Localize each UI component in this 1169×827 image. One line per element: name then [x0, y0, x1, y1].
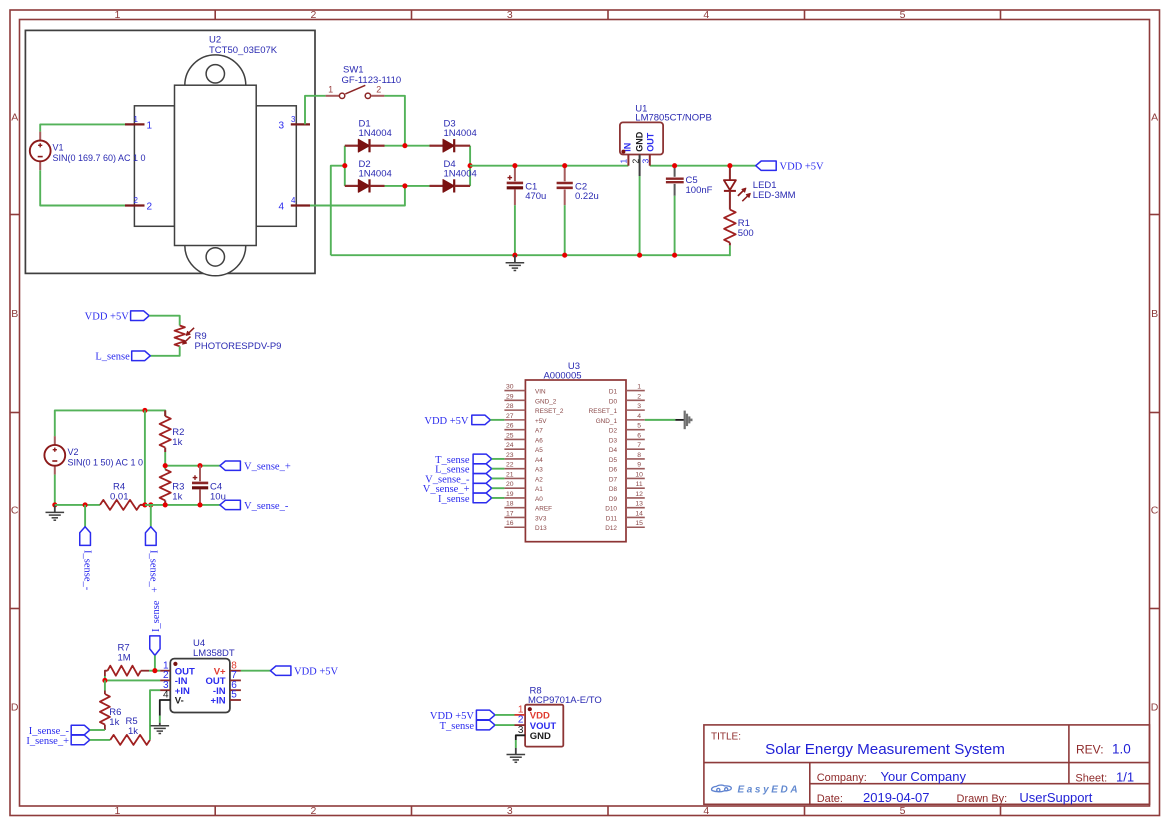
- svg-text:D5: D5: [609, 457, 618, 464]
- svg-text:29: 29: [506, 393, 514, 400]
- svg-text:3V3: 3V3: [535, 515, 547, 522]
- resistor R4 0.01: [100, 500, 145, 510]
- wire R8 pin 3 to ground: [516, 735, 525, 748]
- svg-text:VIN: VIN: [535, 389, 546, 396]
- MCU U3 A000005 body: [525, 380, 626, 542]
- svg-text:1N4004: 1N4004: [359, 168, 392, 179]
- net flag VDD +5V at R8: [476, 710, 495, 720]
- junction I_sense_minus tap: [83, 502, 88, 507]
- net flag V_sense_-: [220, 500, 241, 509]
- wire V_sense_- flag to U3: [492, 477, 505, 479]
- svg-text:T_sense: T_sense: [440, 721, 475, 732]
- svg-text:A3: A3: [535, 467, 543, 474]
- svg-text:21: 21: [506, 471, 514, 478]
- svg-text:4: 4: [163, 690, 169, 701]
- svg-text:20: 20: [506, 481, 514, 488]
- svg-text:1k: 1k: [109, 717, 119, 728]
- svg-text:L_sense: L_sense: [95, 352, 130, 363]
- svg-text:Solar Energy Measurement Syste: Solar Energy Measurement System: [765, 741, 1005, 758]
- svg-text:5: 5: [900, 805, 906, 817]
- svg-text:11: 11: [636, 481, 643, 488]
- svg-text:13: 13: [635, 501, 643, 508]
- wire bridge top rail mid: [384, 145, 431, 147]
- svg-text:1: 1: [114, 805, 120, 817]
- net flag I_sense_+ vertical: [145, 527, 156, 546]
- resistor R3 1k: [160, 469, 171, 505]
- svg-text:Sheet:: Sheet:: [1075, 772, 1107, 784]
- wire R2 to V_sense_+ rail: [164, 452, 166, 469]
- resistor R1 500: [724, 210, 736, 246]
- svg-text:4: 4: [278, 201, 284, 212]
- title block title row divider: [704, 762, 1150, 764]
- U4 pin 2 -IN: [160, 670, 188, 687]
- svg-text:1: 1: [637, 384, 641, 391]
- wire I_sense_- flag to R6: [90, 729, 105, 731]
- junction C2 bottom: [562, 253, 567, 258]
- U1 pin 1 IN: [619, 143, 633, 166]
- svg-text:LED-3MM: LED-3MM: [753, 190, 796, 201]
- wire bridge output rail to U1 IN: [470, 165, 628, 167]
- svg-text:4: 4: [291, 196, 296, 205]
- junction bridge left mid: [342, 163, 347, 168]
- wire R9 to L_sense flag: [150, 346, 179, 356]
- svg-text:4: 4: [703, 805, 709, 817]
- net flag V_sense_+: [220, 461, 241, 470]
- svg-text:A1: A1: [535, 486, 543, 493]
- svg-text:2: 2: [376, 85, 381, 95]
- svg-text:SIN(0 169.7 60) AC 1 0: SIN(0 169.7 60) AC 1 0: [53, 153, 146, 163]
- wire R1 to ground rail: [729, 245, 731, 256]
- svg-text:V_sense_+: V_sense_+: [244, 462, 291, 473]
- regulator U1 LM7805 body: [620, 122, 663, 154]
- svg-text:V1: V1: [53, 143, 64, 153]
- wire U2 pin 4 to bridge bottom: [310, 186, 405, 206]
- U3 right pins 1-15: [589, 384, 645, 533]
- svg-text:REV:: REV:: [1076, 743, 1104, 757]
- title block rev column divider: [1068, 725, 1070, 784]
- svg-text:TCT50_03E07K: TCT50_03E07K: [209, 45, 278, 56]
- svg-text:470u: 470u: [525, 191, 546, 202]
- wire I_sense_+ tap down: [150, 505, 152, 527]
- wire VDD flag to R9: [149, 316, 180, 326]
- svg-text:V-: V-: [175, 696, 184, 707]
- wire bridge right vertical: [469, 146, 471, 186]
- U4 pin 5 +IN: [211, 690, 241, 707]
- resistor R7 1M: [105, 666, 149, 676]
- svg-text:SIN(0 1 50) AC 1 0: SIN(0 1 50) AC 1 0: [68, 457, 144, 467]
- wire I_sense flag to U3: [492, 497, 505, 499]
- signal ground at U3 GND_1: [675, 411, 691, 430]
- svg-text:15: 15: [635, 520, 643, 527]
- photoresistor R9: [175, 326, 195, 347]
- svg-text:GND: GND: [530, 731, 551, 742]
- svg-text:D9: D9: [609, 496, 618, 503]
- capacitor C1 470u polarized: [507, 166, 523, 206]
- title block lower row divider: [810, 783, 1150, 785]
- wire C1 to ground rail: [514, 205, 516, 255]
- junction bridge right mid: [468, 163, 473, 168]
- ground symbol at R8 pin 3: [507, 748, 526, 762]
- svg-text:I_sense_+: I_sense_+: [26, 736, 69, 747]
- svg-text:D13: D13: [535, 525, 547, 532]
- svg-text:A5: A5: [535, 447, 543, 454]
- junction U1 GND bottom: [637, 253, 642, 258]
- wire V_sense_+ flag to U3: [492, 487, 505, 489]
- svg-text:10u: 10u: [210, 491, 226, 502]
- svg-text:8: 8: [637, 452, 641, 459]
- svg-text:1N4004: 1N4004: [444, 168, 477, 179]
- svg-text:+5V: +5V: [535, 418, 547, 425]
- diode D3: [430, 139, 471, 152]
- svg-text:1: 1: [114, 9, 120, 21]
- wire bridge left to ground rail: [331, 166, 345, 256]
- svg-text:3: 3: [637, 403, 641, 410]
- svg-text:D: D: [1151, 702, 1159, 714]
- frame column ticks bottom: [215, 806, 1000, 816]
- svg-text:U2: U2: [209, 35, 221, 46]
- svg-text:+IN: +IN: [211, 696, 226, 707]
- LED LED1: [724, 166, 750, 210]
- svg-text:VDD +5V: VDD +5V: [424, 416, 469, 427]
- svg-text:A2: A2: [535, 476, 543, 483]
- svg-text:Company:: Company:: [817, 772, 867, 784]
- svg-text:VDD +5V: VDD +5V: [780, 162, 825, 173]
- svg-text:1: 1: [619, 159, 629, 164]
- wire SW1 pin 2 to bridge top: [384, 96, 405, 146]
- net flag VDD +5V at U4: [270, 666, 291, 675]
- wire U3 GND_1 to ground: [645, 419, 676, 421]
- svg-text:3: 3: [278, 120, 284, 131]
- svg-text:A7: A7: [535, 428, 543, 435]
- svg-text:AREF: AREF: [535, 506, 552, 513]
- svg-text:Date:: Date:: [817, 793, 843, 805]
- frame row letters left: [11, 112, 19, 714]
- wire U2 pin 3 to SW1: [305, 96, 326, 125]
- svg-text:A4: A4: [535, 457, 543, 464]
- svg-text:6: 6: [637, 432, 641, 439]
- net flag I_sense_- vertical: [80, 527, 91, 546]
- svg-text:D6: D6: [609, 467, 618, 474]
- svg-text:D12: D12: [605, 525, 617, 532]
- svg-text:24: 24: [506, 442, 514, 449]
- svg-text:D4: D4: [609, 447, 618, 454]
- R8 pin 1 marker dot: [528, 707, 532, 711]
- svg-text:OUT: OUT: [646, 132, 656, 152]
- capacitor C2 0.22u: [557, 166, 573, 206]
- wire V2 top rail: [55, 410, 165, 436]
- junction C5 top: [672, 163, 677, 168]
- junction top rail R2 branch: [142, 408, 147, 413]
- svg-text:Your Company: Your Company: [881, 769, 967, 784]
- net flag V_sense_- at U3: [473, 474, 492, 484]
- wire I_sense_- tap down: [84, 505, 86, 527]
- svg-text:D3: D3: [609, 437, 618, 444]
- svg-text:7: 7: [637, 442, 641, 449]
- switch SW1: [326, 85, 385, 99]
- svg-text:30: 30: [506, 384, 514, 391]
- junction C2 top: [562, 163, 567, 168]
- svg-text:19: 19: [506, 491, 514, 498]
- svg-text:A: A: [1151, 112, 1158, 124]
- svg-text:16: 16: [506, 520, 514, 527]
- frame column numbers top: [114, 9, 905, 21]
- svg-text:D2: D2: [609, 428, 618, 435]
- svg-text:V2: V2: [68, 447, 79, 457]
- U1 pin 1 marker dot: [621, 150, 625, 154]
- R8 pin 1 VDD: [515, 704, 550, 721]
- svg-text:3: 3: [291, 115, 296, 124]
- wire U1 GND to ground rail: [639, 176, 641, 255]
- junction -IN node: [102, 678, 107, 683]
- svg-text:GND_1: GND_1: [596, 418, 618, 425]
- junction bridge top mid: [402, 143, 407, 148]
- wire V1 bottom to U2 pin 2: [40, 170, 125, 205]
- svg-text:RESET_1: RESET_1: [589, 408, 618, 415]
- svg-text:27: 27: [506, 413, 514, 420]
- wire R5 to U4 pin 3: [150, 690, 160, 740]
- net flag I_sense above U4: [150, 636, 160, 656]
- svg-text:VDD +5V: VDD +5V: [294, 667, 339, 678]
- net flag VDD +5V at regulator output: [756, 161, 777, 170]
- svg-text:LM7805CT/NOPB: LM7805CT/NOPB: [635, 112, 712, 123]
- ground symbol under C1: [506, 255, 525, 270]
- wire C2 to ground rail: [564, 205, 566, 255]
- wire ground rail: [331, 254, 730, 256]
- junction C4 bottom: [197, 502, 202, 507]
- R8 pin 3 GND: [518, 725, 551, 742]
- svg-text:3: 3: [518, 725, 524, 736]
- frame column ticks top: [215, 10, 1000, 20]
- svg-text:TITLE:: TITLE:: [711, 732, 741, 743]
- svg-text:1: 1: [147, 120, 153, 131]
- svg-text:RESET_2: RESET_2: [535, 408, 564, 415]
- svg-text:GF-1123-1110: GF-1123-1110: [342, 75, 402, 86]
- U1 pin 2 GND: [631, 131, 645, 176]
- svg-text:1k: 1k: [172, 491, 182, 502]
- svg-text:1N4004: 1N4004: [444, 128, 477, 139]
- svg-text:SW1: SW1: [343, 64, 364, 75]
- transformer U2 core body: [134, 55, 296, 276]
- net flag T_sense at U3: [473, 454, 492, 464]
- svg-text:D1: D1: [609, 389, 618, 396]
- svg-text:100nF: 100nF: [686, 185, 713, 196]
- svg-text:3: 3: [507, 805, 513, 817]
- frame column numbers bottom: [114, 805, 905, 817]
- title block logo cell divider: [809, 763, 811, 805]
- U3 left pins 30-16: [504, 384, 563, 533]
- svg-text:B: B: [11, 308, 18, 320]
- wire V2 bottom to ground: [54, 475, 56, 505]
- junction bridge bottom mid: [402, 183, 407, 188]
- junction V2 ground: [52, 502, 57, 507]
- sensor R8 MCP9701 body: [525, 705, 563, 747]
- wire I_sense flag to U4 pin 1: [154, 655, 156, 670]
- svg-text:LM358DT: LM358DT: [193, 648, 235, 659]
- frame row ticks right: [1150, 215, 1160, 609]
- capacitor C4 10u polarized: [192, 466, 208, 505]
- wire U1 OUT rail to VDD flag: [650, 165, 756, 167]
- svg-text:26: 26: [506, 423, 514, 430]
- net flag T_sense at R8: [476, 720, 495, 730]
- svg-text:A: A: [11, 112, 18, 124]
- svg-text:B: B: [1151, 308, 1158, 320]
- svg-text:1: 1: [328, 85, 333, 95]
- wire VDD flag to R8 pin 1: [495, 714, 515, 716]
- svg-text:GND: GND: [635, 131, 645, 152]
- svg-text:GND_2: GND_2: [535, 398, 557, 405]
- U4 pin 6 -IN: [213, 680, 241, 697]
- U4 pin 1 marker dot: [173, 662, 177, 666]
- U2 pin 1: [125, 115, 153, 132]
- svg-text:D11: D11: [606, 515, 618, 522]
- svg-text:500: 500: [738, 228, 754, 239]
- svg-text:2: 2: [310, 805, 316, 817]
- U2 pin 4: [278, 196, 310, 213]
- junction R4 right A: [142, 502, 147, 507]
- svg-text:10: 10: [635, 471, 643, 478]
- wire V1 top to U2 pin 1: [40, 124, 125, 131]
- diode D1: [345, 139, 385, 152]
- svg-text:I_sense: I_sense: [151, 600, 162, 632]
- svg-text:I_sense_-: I_sense_-: [82, 550, 93, 591]
- ground symbol under V2: [46, 505, 65, 520]
- wire VDD flag to U3 pin 27: [490, 419, 504, 421]
- wire mid vertical from top rail: [144, 410, 146, 505]
- wire U4 pin 8 to VDD flag: [241, 670, 271, 672]
- svg-text:1k: 1k: [128, 726, 138, 737]
- net flag L_sense at U3: [473, 464, 492, 474]
- frame row letters right: [1151, 112, 1159, 714]
- svg-text:12: 12: [635, 491, 643, 498]
- svg-text:2: 2: [637, 393, 641, 400]
- wire bridge left vertical: [344, 146, 346, 186]
- frame row ticks left: [10, 215, 20, 609]
- svg-text:C: C: [11, 505, 19, 517]
- capacitor C5 100nF: [666, 166, 684, 196]
- wire feedback node to U4 pin 1: [149, 670, 160, 672]
- U4 pin 1 OUT: [160, 660, 195, 677]
- svg-text:3: 3: [507, 9, 513, 21]
- net flag V_sense_+ at U3: [473, 483, 492, 493]
- svg-text:2: 2: [134, 196, 139, 205]
- wire L_sense flag to U3: [492, 468, 505, 470]
- ground symbol at U4 pin 4: [151, 723, 170, 734]
- wire V_sense_+ rail: [165, 465, 220, 467]
- svg-text:A6: A6: [535, 437, 543, 444]
- svg-text:D8: D8: [609, 486, 618, 493]
- wire I_sense_+ flag to R5: [90, 739, 111, 741]
- svg-text:I_sense_+: I_sense_+: [147, 550, 158, 593]
- svg-text:EasyEDA: EasyEDA: [738, 785, 801, 796]
- voltage source V1: [30, 132, 51, 171]
- svg-text:5: 5: [637, 423, 641, 430]
- svg-text:UserSupport: UserSupport: [1019, 790, 1092, 805]
- net flag VDD +5V at R9: [131, 311, 150, 321]
- junction R4 right B: [148, 502, 153, 507]
- svg-text:A000005: A000005: [543, 371, 581, 382]
- svg-text:A0: A0: [535, 496, 543, 503]
- svg-text:17: 17: [506, 510, 514, 517]
- svg-text:9: 9: [637, 462, 641, 469]
- svg-text:V_sense_-: V_sense_-: [244, 501, 289, 512]
- svg-text:C: C: [1151, 505, 1159, 517]
- svg-text:D0: D0: [609, 398, 618, 405]
- junction C1 bottom ground: [512, 253, 517, 258]
- svg-text:0.01: 0.01: [110, 491, 129, 502]
- wire T_sense flag to U3: [492, 458, 505, 460]
- svg-text:5: 5: [231, 690, 237, 701]
- svg-text:23: 23: [506, 452, 514, 459]
- junction C4 top: [197, 463, 202, 468]
- svg-text:2: 2: [631, 159, 641, 164]
- net flag VDD +5V at U3 pin 27: [472, 415, 491, 425]
- wire C5 to ground rail: [674, 196, 676, 255]
- svg-text:D7: D7: [609, 476, 618, 483]
- svg-text:1N4004: 1N4004: [359, 128, 392, 139]
- svg-text:5: 5: [900, 9, 906, 21]
- svg-text:1.0: 1.0: [1112, 742, 1131, 757]
- net flag I_sense_- at U4: [71, 725, 90, 735]
- diode D4: [430, 179, 471, 192]
- svg-text:0.22u: 0.22u: [575, 191, 599, 202]
- net flag I_sense_+ at U4: [71, 735, 90, 745]
- svg-text:D: D: [11, 702, 19, 714]
- U2 pin 3: [278, 115, 310, 132]
- svg-text:2019-04-07: 2019-04-07: [863, 790, 930, 805]
- diode D2: [345, 179, 385, 192]
- svg-text:1M: 1M: [118, 652, 131, 663]
- wire bridge bottom rail mid: [384, 185, 431, 187]
- junction U4 pin 1 node: [152, 668, 157, 673]
- resistor R6 1k: [100, 680, 110, 730]
- svg-text:PHOTORESPDV-P9: PHOTORESPDV-P9: [195, 341, 282, 352]
- transformer U2 outer enclosure box: [25, 30, 315, 273]
- voltage source V2: [44, 436, 65, 475]
- U2 pin 2: [125, 196, 153, 213]
- net flag L_sense: [132, 351, 151, 361]
- svg-text:4: 4: [703, 9, 709, 21]
- U1 pin 3 OUT: [641, 132, 656, 165]
- svg-text:1k: 1k: [172, 437, 182, 448]
- net flag I_sense at U3: [473, 493, 492, 503]
- svg-text:VDD +5V: VDD +5V: [85, 312, 130, 323]
- svg-text:MCP9701A-E/TO: MCP9701A-E/TO: [528, 695, 602, 706]
- U4 pin 8 V+: [214, 660, 241, 677]
- wire R7 to -IN node: [104, 676, 106, 680]
- junction LED1 top: [727, 163, 732, 168]
- svg-text:18: 18: [506, 501, 514, 508]
- junction R2 R3 node: [163, 463, 168, 468]
- svg-text:1/1: 1/1: [1116, 769, 1134, 784]
- wire bottom rail V2 to R4: [55, 504, 100, 506]
- svg-text:3: 3: [641, 159, 651, 164]
- wire U4 pin 4 to ground: [160, 700, 171, 723]
- U4 pin 4 V-: [163, 690, 184, 707]
- svg-text:D10: D10: [605, 506, 617, 513]
- op-amp U4 LM358DT body: [170, 659, 230, 713]
- svg-text:4: 4: [637, 413, 641, 420]
- resistor R5 1k: [110, 735, 150, 745]
- junction R3 bottom: [163, 502, 168, 507]
- svg-text:14: 14: [635, 510, 643, 517]
- R8 pin 2 VOUT: [515, 715, 557, 732]
- EasyEDA logo: [712, 785, 801, 796]
- svg-text:2: 2: [310, 9, 316, 21]
- U4 pin 3 +IN: [160, 680, 190, 697]
- svg-text:I_sense: I_sense: [438, 494, 470, 505]
- svg-text:22: 22: [506, 462, 514, 469]
- svg-text:28: 28: [506, 403, 514, 410]
